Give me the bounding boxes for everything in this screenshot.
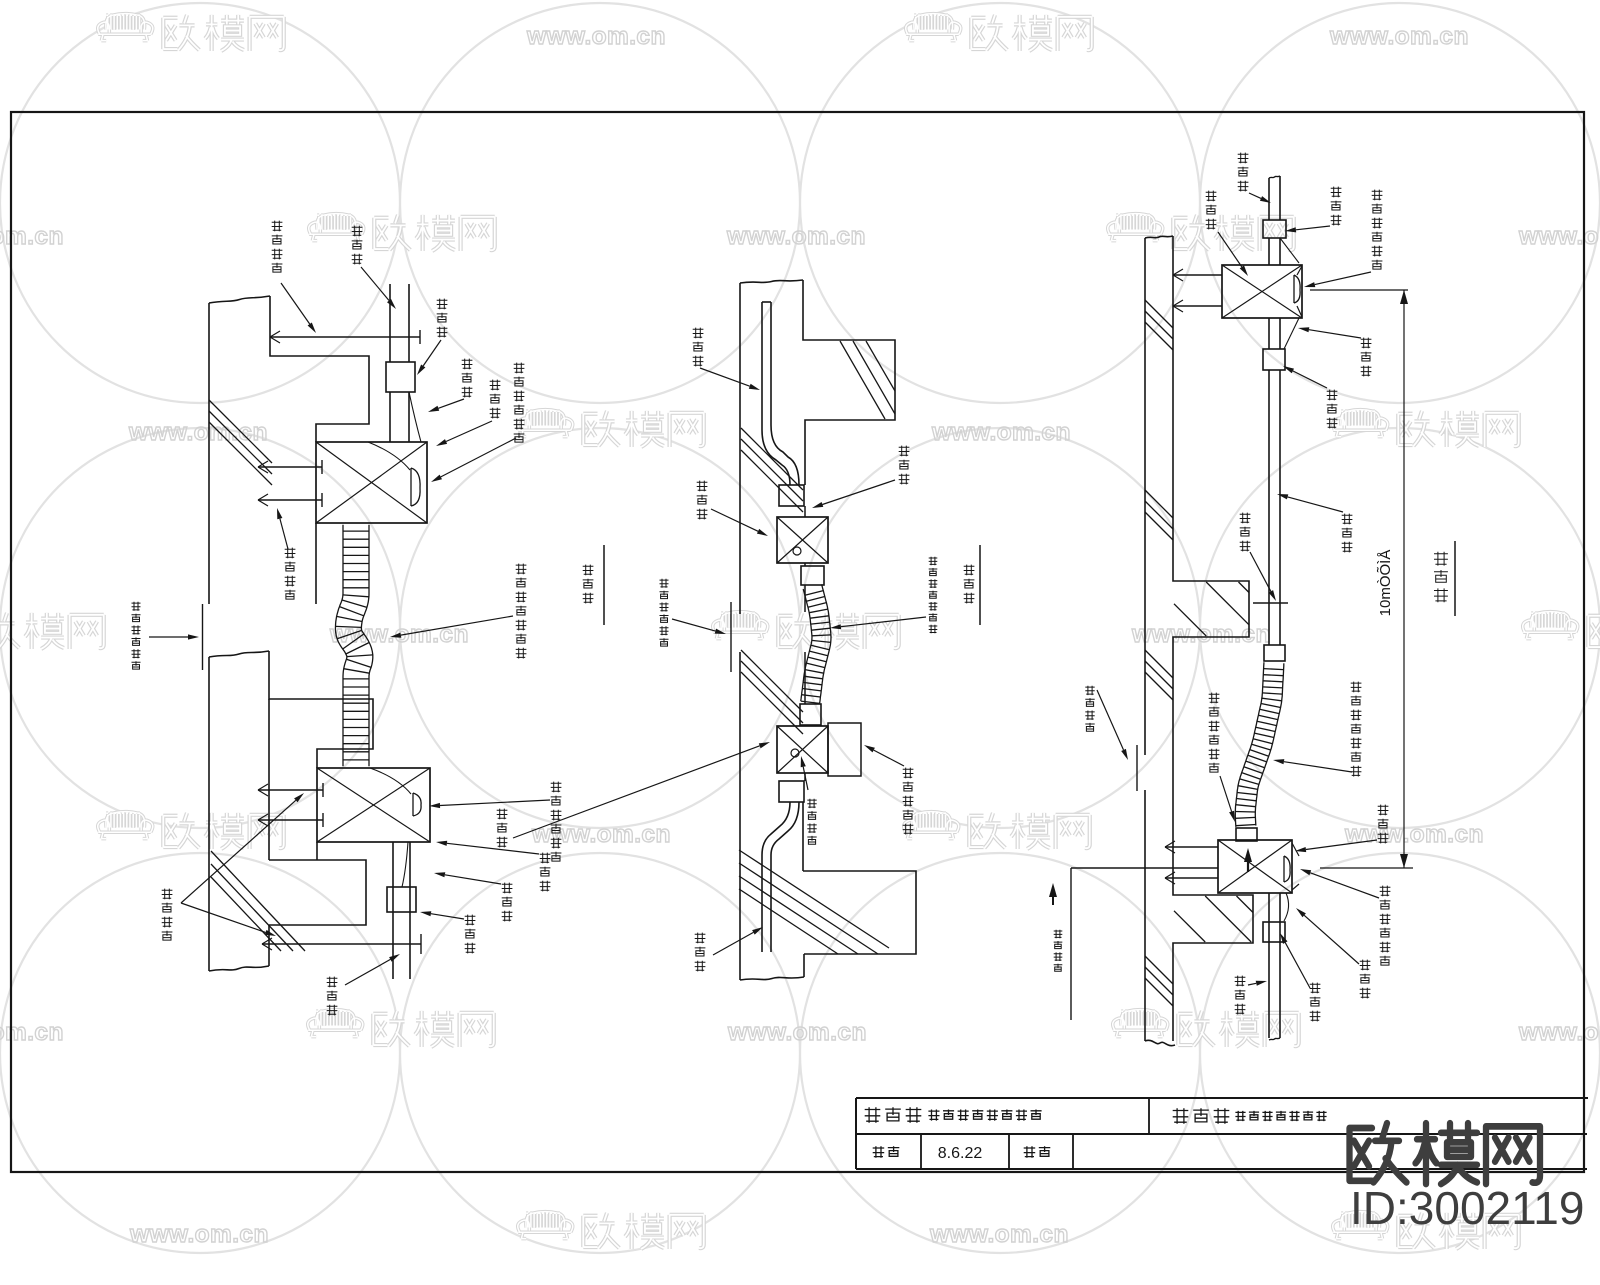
label dianxianguan (r-mid) xyxy=(1342,514,1353,553)
svg-text:www.om.cn: www.om.cn xyxy=(931,419,1071,446)
hanger rod 1 xyxy=(270,336,420,338)
label fenxianxiang (r-top) xyxy=(1206,191,1217,230)
label xiangnei jiedi duanzi xyxy=(514,363,525,442)
svg-text:www.om.cn: www.om.cn xyxy=(1518,223,1600,250)
conduit below box2 xyxy=(392,842,394,979)
expansion joint right xyxy=(1136,745,1138,791)
label dianxianguan (bottom) xyxy=(327,977,338,1016)
label diaogan luoshuan (bottom) xyxy=(162,889,173,941)
left diagram: upper wall xyxy=(208,303,210,604)
label dianxianguan (r-top) xyxy=(1238,153,1249,192)
label fenxianxiang (r-bot) xyxy=(1378,805,1389,844)
label zhongji jiexianxiang xyxy=(903,768,914,835)
clamp r2 xyxy=(1263,349,1285,370)
caption xingshi yi xyxy=(583,565,594,604)
middle wall arm hatch xyxy=(840,341,885,419)
coupling r1 xyxy=(1264,645,1285,661)
flexible conduit mid xyxy=(801,589,812,701)
hanger rods 2,3 xyxy=(258,466,322,468)
label dixianjia xyxy=(437,299,448,338)
flexible conduit left xyxy=(335,525,346,767)
label ruxian fangxiang xyxy=(1054,930,1063,972)
svg-text:ID:3002119: ID:3002119 xyxy=(1350,1182,1584,1234)
label fenxianxiang xyxy=(490,380,501,419)
svg-text:www.om.cn: www.om.cn xyxy=(727,1019,867,1046)
right wall xyxy=(1144,238,1146,755)
label kerao jinshu dianxianguan (r) xyxy=(1351,682,1362,777)
svg-text:www.om.cn: www.om.cn xyxy=(1344,821,1484,848)
label diaogan luoshuan (top) xyxy=(272,221,283,272)
label jiexianhe (upper) xyxy=(697,481,708,520)
coupling r2 xyxy=(1236,828,1257,841)
embedded slot (wire box) xyxy=(762,302,790,485)
label jiexianhe (lower) xyxy=(497,809,508,848)
label diao luoshuan xyxy=(1240,513,1251,552)
clamp r1 xyxy=(1263,220,1286,238)
svg-text:www.om.cn: www.om.cn xyxy=(1518,1019,1600,1046)
anchor rods top box xyxy=(1173,274,1222,276)
svg-text:www.om.cn: www.om.cn xyxy=(1131,621,1271,648)
label jianzhu shensuofengchu (mid) xyxy=(660,579,669,646)
label jiedixian xyxy=(462,359,473,398)
dimension 10m xyxy=(1310,289,1408,291)
clamp below box2 xyxy=(779,781,804,802)
conduit vertical top xyxy=(1269,176,1280,220)
label dianxianguan (mid-bottom) xyxy=(695,933,706,972)
entry path xyxy=(1071,867,1218,869)
junction box bottom right xyxy=(1218,840,1292,893)
clamp r3 xyxy=(1263,922,1285,942)
junction box 2 xyxy=(317,768,430,842)
label dixianjia (r-bot) xyxy=(1310,983,1321,1022)
junction box top right xyxy=(1222,265,1302,318)
ground clamp top xyxy=(386,362,415,392)
caption xingshi er xyxy=(964,565,975,604)
ground clamp bottom xyxy=(387,887,416,912)
relay box xyxy=(828,723,861,776)
svg-text:www.om.cn: www.om.cn xyxy=(0,1019,64,1046)
conduit below bottom box xyxy=(1268,893,1270,1038)
label keraojinshu dianxianguan (mid) xyxy=(929,557,938,634)
junction box mid 1 xyxy=(777,517,828,563)
entry direction arrow xyxy=(1049,883,1057,897)
junction box 1 xyxy=(316,442,427,523)
coupling 2 xyxy=(800,704,821,725)
coupling 1 xyxy=(801,566,824,585)
label jiedixian (mid) xyxy=(899,446,910,485)
conduit (top) xyxy=(389,284,391,362)
title text section xyxy=(1173,1108,1230,1124)
flexible conduit right xyxy=(1235,662,1264,827)
label kerao jinshuguan suotou xyxy=(1209,693,1220,773)
svg-text:www.om.cn: www.om.cn xyxy=(128,419,268,446)
svg-text:www.om.cn: www.om.cn xyxy=(726,223,866,250)
label fenxianxiang (bottom) xyxy=(540,853,551,892)
label dixianjia (bottom) xyxy=(465,915,476,954)
label xiangnei jiedi duanzi (bottom) xyxy=(551,782,562,862)
svg-text:10mÒÕÌÅ: 10mÒÕÌÅ xyxy=(1377,550,1394,617)
label diaogan luoshuan (mid) xyxy=(285,548,296,600)
label dianxianguan (r-bot) xyxy=(1235,976,1246,1015)
svg-text:www.om.cn: www.om.cn xyxy=(129,1221,269,1248)
label dianxianhe xyxy=(693,328,704,367)
label jiedixian (bottom) xyxy=(502,883,513,922)
watermark lattice xyxy=(0,3,400,403)
label jianzhu shensuofengchu xyxy=(132,602,141,669)
lower wall hatch xyxy=(211,851,305,951)
caption xingshi san xyxy=(1434,552,1448,603)
hanger T on conduit xyxy=(1253,602,1288,604)
clamp above box1 xyxy=(779,485,804,506)
label dianxianguan (top) xyxy=(352,226,363,265)
expansion joint middle xyxy=(730,602,732,672)
anchor rods bottom box xyxy=(1165,846,1218,848)
lower slot xyxy=(762,802,790,952)
right wall hatches xyxy=(1145,300,1173,328)
lower wall xyxy=(209,651,269,657)
svg-text:8.6.22: 8.6.22 xyxy=(938,1145,983,1162)
svg-text:www.om.cn: www.om.cn xyxy=(1329,23,1469,50)
label keraojinshu dianxianguan xyxy=(516,564,527,659)
cell tuming xyxy=(1024,1146,1051,1158)
hanger rod 4 xyxy=(262,943,421,945)
svg-text:www.om.cn: www.om.cn xyxy=(929,1221,1069,1248)
wall edge segments right xyxy=(804,506,806,517)
title text chapter xyxy=(865,1107,922,1123)
label jiedixian (r) xyxy=(1361,338,1372,377)
label xiangnei jiedi duanzi (r-top) xyxy=(1372,190,1383,269)
label dixianjia (r-top) xyxy=(1331,187,1342,226)
label xiangnei jiedi duanzi (r-bot) xyxy=(1380,886,1391,966)
upper wall hatch xyxy=(209,400,272,463)
big omw logo xyxy=(1350,1123,1541,1184)
label jiedi duanzi xyxy=(807,799,816,845)
cell tuhao xyxy=(873,1146,900,1158)
middle diagram wall lower xyxy=(739,652,741,980)
junction box mid 2 xyxy=(777,726,828,773)
svg-text:www.om.cn: www.om.cn xyxy=(526,23,666,50)
anchor rods box2 xyxy=(258,789,323,791)
title block xyxy=(856,1097,1588,1099)
label dixianjia (r2) xyxy=(1327,390,1338,429)
label jiedixian (r-bot) xyxy=(1360,960,1371,999)
svg-text:www.om.cn: www.om.cn xyxy=(0,223,64,250)
middle diagram wall upper xyxy=(739,283,741,614)
conduit below top box xyxy=(1268,318,1270,349)
feed arrow inside box xyxy=(1244,848,1252,862)
ground wire squiggle r xyxy=(1280,238,1299,263)
expansion joint left xyxy=(202,604,204,670)
label shensuofengchu xyxy=(1085,686,1094,732)
